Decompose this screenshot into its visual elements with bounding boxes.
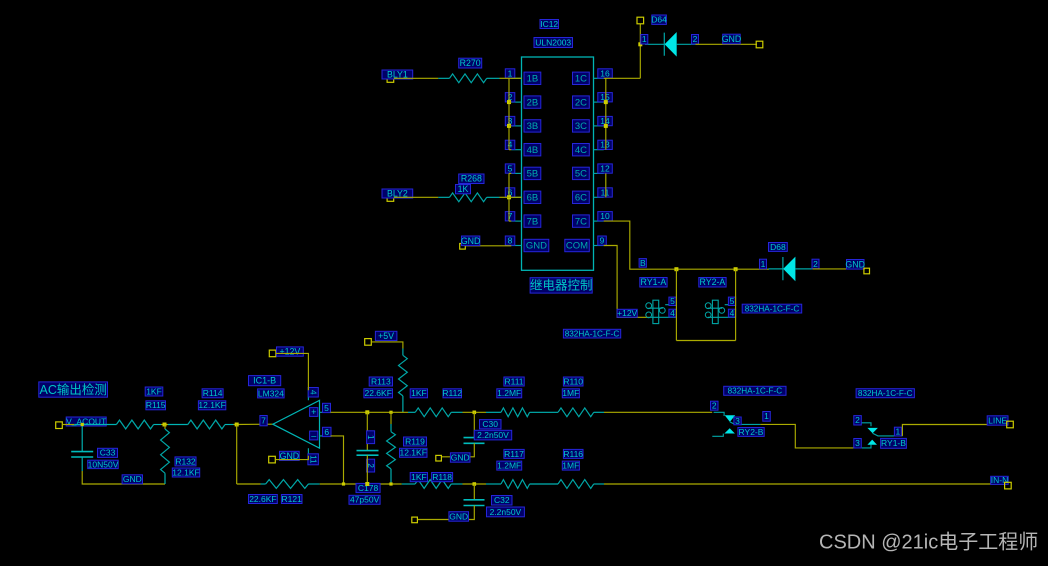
wire pin16 east <box>604 77 641 79</box>
wire row2 to IN-N port <box>604 483 1005 485</box>
power port GND (D64) <box>723 34 741 44</box>
wire feedback row middle <box>320 483 402 485</box>
wire pin6 to feedback row <box>331 436 344 484</box>
svg-text:12.1KF: 12.1KF <box>399 448 426 458</box>
wire C178 to feedback row <box>366 455 368 484</box>
svg-text:ULN2003: ULN2003 <box>535 37 571 47</box>
wire (teal) down to C33 <box>81 425 83 452</box>
text 继电器控制 <box>530 278 592 293</box>
svg-text:7B: 7B <box>527 216 539 227</box>
svg-text:2C: 2C <box>575 97 587 108</box>
junction R115-R114-R132 <box>163 423 167 427</box>
port terminal <box>1005 482 1012 489</box>
label RY2-A <box>699 278 726 288</box>
svg-text:7: 7 <box>508 211 513 221</box>
wire bottom loop <box>676 340 735 342</box>
wire pin10 to net B line <box>604 221 769 269</box>
svg-text:RY1-A: RY1-A <box>641 277 667 287</box>
port terminal <box>269 350 276 357</box>
svg-text:R270: R270 <box>460 58 481 68</box>
pin 11 (6C) <box>594 196 604 198</box>
label RY1-B <box>881 438 907 448</box>
svg-text:RY2-A: RY2-A <box>700 277 726 287</box>
wire R114 to op-amp output pin7 <box>234 423 273 425</box>
pin 6 of IC1-B <box>323 427 332 436</box>
designator IC1-B <box>249 376 281 386</box>
svg-text:R268: R268 <box>461 174 482 184</box>
svg-text:R116: R116 <box>563 449 583 459</box>
junction C178 bottom <box>365 482 369 486</box>
svg-text:R118: R118 <box>432 472 452 482</box>
resistor R119 (12.1KF) <box>390 424 392 432</box>
svg-text:R110: R110 <box>563 376 583 386</box>
svg-text:C30: C30 <box>482 419 498 429</box>
resistor R270 <box>438 77 499 79</box>
junction pin3 <box>507 124 511 128</box>
svg-text:LINE: LINE <box>988 415 1007 425</box>
svg-text:5: 5 <box>324 403 329 413</box>
wire D68 to GND <box>813 268 865 270</box>
label R132 <box>175 457 196 466</box>
value 22.6KF (R121) <box>249 495 278 504</box>
relay coil RY1-A <box>646 300 676 323</box>
pin 7 of IC1-B <box>260 416 267 426</box>
svg-text:832HA-1C-F-C: 832HA-1C-F-C <box>565 329 620 338</box>
pin 4 (4B) <box>511 149 521 151</box>
wire R112 to R111 <box>463 411 487 413</box>
svg-text:1.2MF: 1.2MF <box>497 388 521 398</box>
wire GND to pin11 <box>275 456 308 460</box>
pin 5 of RY2-A <box>728 297 735 305</box>
pin 2 of D64 <box>692 35 699 45</box>
label R268 <box>459 174 484 184</box>
label GND <box>462 236 480 246</box>
net label B <box>639 259 646 268</box>
wire C33 to GND rail <box>82 471 165 484</box>
wire row2 down to C32 <box>473 484 475 500</box>
label R116 <box>563 449 583 458</box>
junction C178 top <box>365 410 369 414</box>
value 12.1KF (R132) <box>172 468 199 477</box>
svg-text:D68: D68 <box>770 242 786 252</box>
svg-text:–: – <box>311 431 316 441</box>
wire feedback row to R121 <box>237 483 261 485</box>
svg-text:1.2MF: 1.2MF <box>497 461 521 471</box>
label D64 <box>652 15 667 24</box>
svg-text:GND: GND <box>722 34 742 44</box>
resistor R111 (1.2MF) <box>486 411 501 413</box>
power port GND (D68) <box>847 260 865 270</box>
svg-text:1KF: 1KF <box>411 472 427 482</box>
svg-text:1: 1 <box>764 411 769 421</box>
pin 12 (5C) <box>594 172 604 174</box>
wire junction to R132 <box>164 425 166 430</box>
capacitor C30 <box>464 438 485 444</box>
label R118 <box>432 473 453 482</box>
junction pin2 <box>507 100 511 104</box>
port terminal <box>436 455 442 461</box>
resistor R121 (22.6KF) <box>261 483 266 485</box>
relay contact RY1-B <box>862 423 903 448</box>
svg-text:12.1KF: 12.1KF <box>172 467 199 477</box>
svg-text:11: 11 <box>601 187 610 197</box>
pin 16 (1C) <box>594 77 604 79</box>
pin 5 (5B) <box>511 172 521 174</box>
designator IC12 <box>540 20 559 29</box>
svg-text:22.6KF: 22.6KF <box>364 388 391 398</box>
svg-text:R119: R119 <box>405 436 425 446</box>
svg-text:B: B <box>640 258 646 268</box>
svg-text:1: 1 <box>761 259 766 269</box>
resistor R112 (1KF) <box>408 411 415 413</box>
junction R119 bottom <box>389 482 392 485</box>
wire row1 down to C30 <box>473 412 475 437</box>
wire D64 to GND <box>696 43 758 45</box>
svg-text:4: 4 <box>508 140 513 150</box>
port terminal <box>637 17 644 24</box>
svg-text:GND: GND <box>526 241 547 252</box>
pin 2 of C178 <box>367 459 375 472</box>
wire bus pins 12-11 <box>605 173 607 197</box>
svg-text:4B: 4B <box>527 145 539 156</box>
value 1KF (R115) <box>145 387 163 396</box>
svg-text:IC12: IC12 <box>540 19 558 29</box>
svg-text:GND: GND <box>449 511 468 521</box>
svg-text:1: 1 <box>896 427 901 437</box>
svg-text:832HA-1C-F-C: 832HA-1C-F-C <box>728 387 783 396</box>
relay coil RY2-A <box>705 300 735 323</box>
svg-text:R112: R112 <box>442 388 462 398</box>
junction R119 top <box>389 411 392 414</box>
value 1KF (R118) <box>410 473 427 482</box>
non-inverting input mark <box>310 408 318 417</box>
pin 10 (7C) <box>594 220 604 222</box>
port terminal <box>387 76 394 83</box>
wire BLY2 to R268 <box>394 196 438 198</box>
svg-text:AC输出检测: AC输出检测 <box>40 382 107 397</box>
wire up to D64 node <box>639 24 641 79</box>
pin 7 (7B) <box>511 220 521 222</box>
pin 2 of D68 <box>812 259 819 269</box>
junction B to RY2-A leg <box>734 267 738 271</box>
value 832HA-1C-F-C (RY1-B) <box>856 389 914 398</box>
pin 3 (3B) <box>511 125 521 127</box>
svg-text:IN-N: IN-N <box>991 475 1008 485</box>
wire B down left leg <box>675 269 677 340</box>
svg-text:5: 5 <box>730 296 735 306</box>
svg-text:R121: R121 <box>282 494 303 504</box>
wire into pin6 <box>509 196 522 198</box>
svg-text:GND: GND <box>123 474 142 484</box>
wire into pin3 <box>509 125 511 127</box>
wire row1 to RY2-B <box>604 411 712 413</box>
svg-text:2: 2 <box>693 34 698 44</box>
value 2.2n50V (C32) <box>487 507 525 517</box>
svg-text:16: 16 <box>600 68 610 78</box>
svg-text:4: 4 <box>730 308 735 318</box>
inverting input mark <box>310 431 318 440</box>
net label GND <box>122 475 142 484</box>
svg-text:GND: GND <box>451 452 470 462</box>
wire RY1-B to LINE <box>902 425 1007 436</box>
wire row1 down to R119 <box>390 412 392 424</box>
resistor R117 (1.2MF) <box>486 483 501 485</box>
wire into pin4 <box>509 149 511 151</box>
svg-text:10N50V: 10N50V <box>88 459 119 469</box>
text AC输出检测 <box>39 382 108 397</box>
svg-text:C33: C33 <box>100 448 116 458</box>
pin 3 of RY1-B <box>854 439 862 449</box>
svg-text:R132: R132 <box>175 456 196 466</box>
svg-text:12: 12 <box>600 163 610 173</box>
resistor R268 <box>438 196 499 198</box>
pin 1 of RY2-B <box>763 412 771 422</box>
label RY1-A <box>640 278 667 288</box>
svg-text:2.2n50V: 2.2n50V <box>490 507 522 517</box>
value 1KF (R112) <box>410 389 427 398</box>
pin 4 of RY2-A <box>728 309 735 317</box>
junction C33 tap <box>81 423 84 426</box>
value 2.2n50V (C30) <box>474 430 511 440</box>
wire +5V to R113 <box>371 342 403 349</box>
wire R270 to pin1 <box>500 77 510 79</box>
junction pin7 feedback tap <box>235 423 239 427</box>
svg-text:22.6KF: 22.6KF <box>249 494 276 504</box>
label R115 <box>146 401 166 410</box>
svg-text:IC1-B: IC1-B <box>253 376 276 386</box>
junction D64 anode node <box>638 42 642 46</box>
resistor R118 (1KF) <box>402 483 415 485</box>
diode D64 <box>645 32 696 57</box>
svg-text:D64: D64 <box>651 15 667 25</box>
svg-text:5: 5 <box>670 296 675 306</box>
resistor R132 <box>161 429 170 473</box>
wire at R115/R114 junction <box>161 424 168 426</box>
svg-text:C32: C32 <box>494 495 510 505</box>
label R111 <box>504 377 524 386</box>
port terminal <box>460 244 466 250</box>
pin 15 (2C) <box>594 101 604 103</box>
port terminal <box>269 456 276 463</box>
wire V_ACOUT out <box>62 424 74 426</box>
wire RY2-B to RY1-B <box>760 424 854 448</box>
label C30 <box>480 420 502 429</box>
port terminal <box>1007 421 1014 428</box>
svg-text:10: 10 <box>600 211 610 221</box>
wire +12V to pin4 <box>276 353 309 390</box>
port terminal <box>756 41 763 48</box>
pin 5 of RY1-A <box>669 297 676 305</box>
svg-text:7: 7 <box>261 416 266 426</box>
svg-text:2B: 2B <box>527 97 539 108</box>
label R117 <box>504 449 524 458</box>
svg-text:3C: 3C <box>575 121 587 132</box>
label C32 <box>492 496 513 506</box>
port terminal <box>412 517 418 523</box>
resistor R113 <box>402 349 404 356</box>
svg-text:+12V: +12V <box>280 347 301 357</box>
wire bus pins 1-4 <box>508 78 510 149</box>
wire into pin2 <box>509 101 511 103</box>
svg-text:832HA-1C-F-C: 832HA-1C-F-C <box>745 304 800 313</box>
svg-text:832HA-1C-F-C: 832HA-1C-F-C <box>858 389 913 398</box>
value 47p50V <box>349 495 380 504</box>
wire R268 to pin6 <box>500 196 510 198</box>
port LINE <box>987 416 1008 425</box>
svg-text:9: 9 <box>600 236 605 246</box>
junction C32 top <box>473 482 477 486</box>
label R114 <box>202 389 223 398</box>
svg-text:GND: GND <box>461 236 481 246</box>
label C178 <box>356 483 380 492</box>
wire pin9 COM to +12V <box>604 246 649 318</box>
ic U IC12 ULN2003 outline <box>522 57 594 270</box>
svg-text:RY2-B: RY2-B <box>739 427 764 437</box>
wire bus pins 16-13 <box>605 78 607 149</box>
value 1MF (R116) <box>562 461 579 470</box>
capacitor C178 <box>357 451 379 456</box>
wire R118 to R117 <box>463 483 487 485</box>
svg-text:4: 4 <box>670 308 675 318</box>
svg-text:6: 6 <box>324 427 329 437</box>
diode D68 <box>769 257 813 282</box>
relay contact RY2-B <box>712 412 760 436</box>
svg-text:R114: R114 <box>203 388 223 398</box>
svg-text:1C: 1C <box>575 74 587 85</box>
svg-text:+12V: +12V <box>617 308 637 318</box>
svg-text:2.2n50V: 2.2n50V <box>477 430 509 440</box>
svg-text:11: 11 <box>308 455 317 464</box>
svg-text:3B: 3B <box>527 121 539 132</box>
label R113 <box>369 377 392 386</box>
value 1K <box>456 185 471 194</box>
pin 1 of D68 <box>760 259 767 269</box>
pin 2 of RY2-B <box>711 401 719 410</box>
capacitor C33 <box>71 452 93 457</box>
resistor R110 (1MF) <box>558 408 594 417</box>
wire C32 to GND <box>418 506 475 520</box>
svg-text:1K: 1K <box>458 184 469 194</box>
pin 11 of IC1-B <box>308 454 319 465</box>
pin 9 (COM) <box>594 245 604 247</box>
svg-text:3: 3 <box>855 438 860 448</box>
wire into pin5 <box>509 172 511 174</box>
svg-text:1KF: 1KF <box>146 386 162 396</box>
value 12.1KF (R119) <box>400 448 428 457</box>
svg-text:R111: R111 <box>504 376 523 386</box>
svg-text:1: 1 <box>642 34 647 44</box>
svg-text:1: 1 <box>508 68 513 78</box>
svg-text:R117: R117 <box>504 449 524 459</box>
svg-text:13: 13 <box>600 140 610 150</box>
svg-text:+: + <box>311 407 316 417</box>
svg-text:6C: 6C <box>575 193 587 204</box>
resistor R114 <box>188 420 225 429</box>
svg-text:5: 5 <box>508 163 513 173</box>
pin 4 of IC1-B <box>308 388 318 398</box>
wire C30 to GND <box>442 443 475 457</box>
wire (teal) V_ACOUT to R115 <box>74 424 116 426</box>
label R119 <box>404 437 427 446</box>
svg-text:6B: 6B <box>527 193 539 204</box>
pin 2 (2B) <box>511 101 521 103</box>
svg-text:2: 2 <box>712 401 717 411</box>
value 22.6KF (R113) <box>364 389 393 398</box>
svg-text:R113: R113 <box>371 376 391 386</box>
junction B to RY1-A leg <box>674 267 678 271</box>
power label +12V <box>617 309 637 317</box>
capacitor C32 <box>464 500 485 506</box>
pin 1 of D64 <box>641 35 648 45</box>
pin 1 of C178 <box>367 431 375 444</box>
wire (teal) junction to R114 <box>168 424 188 426</box>
svg-text:5B: 5B <box>527 169 539 180</box>
pin 8 (GND) <box>511 245 521 247</box>
svg-text:12.1KF: 12.1KF <box>198 400 225 410</box>
svg-text:3: 3 <box>735 416 740 426</box>
port terminal <box>387 195 394 202</box>
value 1MF (R110) <box>562 389 579 398</box>
value 832HA-1C-F-C (RY2-B) <box>724 386 786 395</box>
pin 5 of IC1-B <box>323 403 331 412</box>
value 10N50V <box>88 460 119 468</box>
port terminal <box>365 339 372 346</box>
pin 13 (4C) <box>594 149 604 151</box>
value LM324 <box>258 389 285 398</box>
pin 2 of RY1-B <box>854 416 862 425</box>
pin 6 (6B) <box>511 196 521 198</box>
svg-text:R115: R115 <box>146 400 166 410</box>
svg-text:COM: COM <box>566 241 588 252</box>
junction pin6 on feedback row <box>342 482 345 485</box>
label R110 <box>563 377 583 386</box>
svg-text:47p50V: 47p50V <box>350 495 380 505</box>
pin 3 of RY2-B <box>734 417 741 425</box>
svg-text:2: 2 <box>813 259 818 269</box>
label RY2-B <box>738 428 764 437</box>
label R270 <box>459 58 482 68</box>
value 832HA-1C-F-C (RY2-A) <box>742 304 802 313</box>
value 12.1KF (R114) <box>198 401 225 410</box>
pin 14 (3C) <box>594 125 604 127</box>
wire into pin1 <box>509 77 522 79</box>
resistor R115 <box>116 420 153 429</box>
wire pin5 row1 west part <box>331 411 409 413</box>
svg-text:CSDN @21ic电子工程师: CSDN @21ic电子工程师 <box>819 531 1038 554</box>
svg-text:GND: GND <box>845 259 865 269</box>
op-amp U IC1-B LM324 <box>273 400 320 448</box>
svg-text:LM324: LM324 <box>258 388 284 398</box>
junction pin6 <box>507 195 511 199</box>
svg-text:4: 4 <box>308 390 318 395</box>
svg-text:8: 8 <box>508 236 513 246</box>
label C33 <box>98 448 118 457</box>
wire BLY1 to R270 <box>394 77 438 79</box>
value ULN2003 <box>534 38 573 48</box>
port terminal <box>864 268 870 274</box>
svg-text:1B: 1B <box>527 74 539 85</box>
wire row1 down to C178 <box>366 412 368 450</box>
svg-text:1: 1 <box>366 435 375 440</box>
svg-text:5C: 5C <box>575 169 587 180</box>
wire GND to pin8 <box>465 245 511 247</box>
label R112 <box>443 389 462 398</box>
wire B down right leg <box>735 269 737 340</box>
svg-text:1MF: 1MF <box>562 388 579 398</box>
svg-text:2: 2 <box>855 415 860 425</box>
wire bus pins 5-7 <box>508 173 510 221</box>
junction C30 top <box>473 411 477 415</box>
